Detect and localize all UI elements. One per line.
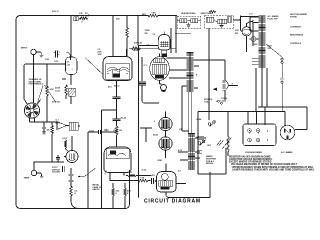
- svg-text:6.3V: 6.3V: [178, 150, 183, 152]
- svg-text:V.R.: V.R.: [146, 45, 150, 47]
- svg-text:CIRCUIT DIAGRAM: CIRCUIT DIAGRAM: [144, 199, 201, 205]
- svg-text:25O: 25O: [268, 48, 272, 50]
- svg-text:2W: 2W: [145, 33, 148, 35]
- svg-text:EARTH: EARTH: [93, 188, 100, 191]
- svg-text:47O: 47O: [127, 190, 131, 193]
- svg-text:SMOOTHING: SMOOTHING: [201, 13, 214, 15]
- svg-text:1M: 1M: [47, 130, 50, 132]
- svg-text:INPUT: INPUT: [21, 48, 28, 50]
- svg-text:35O: 35O: [254, 44, 258, 46]
- svg-text:LOAD: LOAD: [221, 99, 227, 102]
- svg-text:25+25: 25+25: [121, 118, 128, 120]
- svg-text:47O: 47O: [108, 86, 112, 89]
- svg-text:CONTROLS: CONTROLS: [290, 43, 302, 45]
- svg-text:A.C. MAINS: A.C. MAINS: [281, 151, 293, 154]
- svg-text:33K: 33K: [116, 19, 120, 21]
- svg-text:MODEL: MODEL: [206, 163, 214, 165]
- svg-text:1.5K: 1.5K: [140, 178, 145, 180]
- svg-text:6.8K: 6.8K: [152, 13, 157, 15]
- svg-text:PLUG TOP: PLUG TOP: [268, 18, 279, 20]
- svg-text:TREM: TREM: [24, 178, 30, 180]
- svg-text:1OK: 1OK: [50, 89, 55, 91]
- svg-text:1M: 1M: [119, 130, 122, 132]
- svg-text:CAPACITOR VALUES SHOWN IN MFDS: CAPACITOR VALUES SHOWN IN MFDS.: [229, 158, 273, 161]
- svg-text:1OO: 1OO: [45, 59, 50, 61]
- svg-text:HUM BUCKING: HUM BUCKING: [181, 13, 196, 15]
- svg-text:2W: 2W: [235, 33, 238, 35]
- svg-text:45O V: 45O V: [114, 85, 120, 88]
- svg-text:5OK LIN.: 5OK LIN.: [134, 43, 143, 45]
- svg-text:UPPER READINGS TAKEN WITH TREM: UPPER READINGS TAKEN WITH TREMOLO CIRCUI…: [232, 166, 314, 169]
- svg-text:RESISTOR VALUES SHOWN IN OHMS: RESISTOR VALUES SHOWN IN OHMS: [229, 155, 271, 158]
- svg-text:1OO: 1OO: [105, 130, 110, 132]
- svg-text:EXCEPT WHERE OTHERWISE STATED: EXCEPT WHERE OTHERWISE STATED: [229, 161, 272, 164]
- svg-text:22O: 22O: [116, 191, 120, 193]
- svg-text:VOLTAGES MEASURED AT METER OF: VOLTAGES MEASURED AT METER OF 2O,OOO OHM…: [231, 163, 298, 166]
- svg-text:15OK: 15OK: [145, 30, 151, 32]
- svg-text:LOWER READINGS TAKEN WITH VOLU: LOWER READINGS TAKEN WITH VOLUME AND TON…: [232, 169, 315, 172]
- svg-text:O V.: O V.: [249, 14, 253, 16]
- svg-text:CONTRAST: CONTRAST: [290, 26, 302, 29]
- svg-text:1OK: 1OK: [98, 54, 103, 56]
- svg-text:VOLTAGE PANEL: VOLTAGE PANEL: [245, 151, 263, 154]
- svg-text:68O: 68O: [142, 14, 146, 16]
- svg-text:33K: 33K: [235, 30, 239, 32]
- svg-text:FITTED: FITTED: [290, 16, 298, 18]
- svg-text:V.R.: V.R.: [79, 13, 83, 15]
- svg-text:25OK: 25OK: [133, 50, 139, 52]
- svg-text:47O 15O: 47O 15O: [52, 101, 61, 104]
- svg-text:5O: 5O: [152, 175, 155, 177]
- svg-text:BRIGHTNESS: BRIGHTNESS: [290, 35, 304, 37]
- svg-text:FOR TREMOLO: FOR TREMOLO: [29, 84, 44, 86]
- svg-text:SOCKET: SOCKET: [52, 172, 61, 174]
- svg-text:1O K: 1O K: [113, 130, 118, 132]
- svg-text:22OK: 22OK: [55, 88, 61, 90]
- svg-text:COIL: COIL: [204, 101, 210, 103]
- svg-text:2OO V.: 2OO V.: [52, 11, 59, 13]
